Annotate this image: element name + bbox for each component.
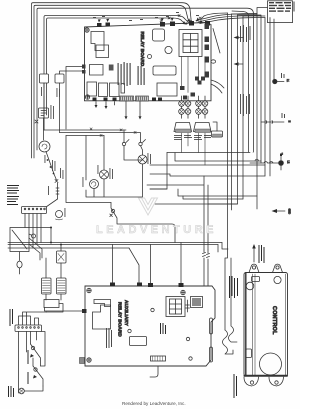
control ear hole top-right	[276, 266, 279, 269]
control bottom-left text	[234, 374, 238, 398]
aux right bars	[210, 318, 213, 362]
long horizontals mid-bottom	[8, 243, 222, 249]
control arrow text	[259, 245, 265, 263]
control big circle	[260, 353, 282, 375]
oven lamp circle	[100, 170, 109, 179]
aux relay big	[93, 305, 111, 329]
lamp2 circle	[138, 155, 147, 164]
drop to aux verticals with break	[203, 250, 210, 286]
wire lamp left vert	[66, 136, 111, 203]
bl strip feeds	[19, 312, 47, 325]
control ear hole top-left	[252, 266, 255, 269]
small box bottom right of board	[157, 83, 177, 96]
wire drops below relay board	[96, 102, 115, 108]
wavy wires to control	[223, 330, 234, 354]
wire mid horizontals	[44, 130, 140, 136]
bl junction box	[44, 300, 63, 313]
aux relay board outline	[85, 286, 215, 366]
bl switch2	[33, 358, 43, 386]
wire right bus v4	[269, 18, 271, 177]
right edge contacts	[205, 24, 210, 78]
svg-text:LEADVENTURE: LEADVENTURE	[96, 224, 217, 236]
top edge pads	[97, 21, 210, 27]
wire top fan 2	[198, 16, 261, 23]
spark module	[212, 131, 223, 137]
dark comp x	[109, 65, 114, 71]
wire frame feed5	[47, 18, 187, 115]
wire switch tops	[60, 67, 83, 130]
aux pin header	[151, 356, 166, 361]
aux top pads	[110, 283, 184, 288]
control rects	[252, 277, 260, 282]
label specks above board	[93, 12, 199, 21]
aux ic	[130, 337, 147, 346]
wire fuse to strip	[46, 199, 58, 207]
control knob circle left	[246, 282, 254, 290]
wire latch down	[43, 118, 45, 140]
bus small marks	[281, 73, 285, 155]
conv motor circle	[90, 180, 99, 189]
component circle	[165, 46, 172, 53]
junction dots	[186, 20, 193, 24]
aux hole H2	[186, 337, 189, 340]
control ear hole bottom-right	[275, 381, 278, 384]
aux dark comp	[191, 297, 203, 308]
aux bottom exit wire	[150, 366, 158, 377]
svg-text:RELAY BOARD: RELAY BOARD	[118, 302, 123, 337]
wire right bus v2	[260, 16, 262, 164]
igniter stack A	[174, 96, 192, 133]
wire right bus v3	[264, 18, 266, 177]
wire spark module	[213, 122, 217, 131]
bl left text	[10, 309, 14, 326]
comp x box	[57, 251, 67, 263]
solenoid B	[57, 278, 67, 294]
x mark under latch	[35, 120, 38, 123]
igniter stack B	[194, 96, 212, 133]
wire left-mid bus v2	[231, 14, 233, 210]
bl lamp	[19, 386, 43, 394]
diagonal drop	[129, 248, 139, 286]
control inner lines	[253, 274, 286, 375]
buzzer circle	[56, 211, 63, 220]
rounded component	[153, 29, 165, 41]
L1 terminal	[273, 79, 284, 83]
pad arrows	[98, 18, 174, 23]
wire oval	[19, 252, 21, 274]
bl terminal strip	[15, 325, 42, 332]
right edge wires	[211, 29, 224, 94]
wire left-mid bus v1	[227, 13, 229, 249]
staircase nest wires	[167, 153, 261, 162]
wire frame second	[34, 5, 188, 158]
bottom edge pads	[93, 98, 163, 102]
left margin text stack	[7, 185, 19, 205]
board text block2	[138, 66, 145, 85]
control up arrow	[252, 244, 256, 262]
latch box	[39, 108, 49, 118]
connector strip bottom hatched2	[136, 96, 149, 101]
relay row r2	[99, 83, 108, 97]
aux bottom wire out	[45, 308, 85, 312]
wire top fan 3	[200, 18, 265, 24]
wire motor diagonal	[46, 152, 57, 181]
bus arrows	[234, 36, 239, 66]
wire to fuse	[56, 183, 59, 199]
door switch box	[40, 74, 49, 130]
svg-text:Rendered by LeadVenture, Inc.: Rendered by LeadVenture, Inc.	[122, 401, 186, 406]
arrowhead bake	[125, 116, 142, 119]
svg-text:CONTROL: CONTROL	[271, 306, 277, 335]
bus label text top	[240, 25, 251, 42]
wire corner to control	[218, 243, 228, 253]
lamp labels	[45, 153, 151, 217]
svg-text:GND: GND	[288, 209, 292, 215]
board left edge pads	[82, 65, 86, 74]
light switch box	[55, 74, 64, 133]
svg-text:RELAY BOARD: RELAY BOARD	[140, 32, 145, 67]
control knob circle right	[274, 276, 281, 283]
aux mounting hole 3	[87, 358, 91, 362]
legend text lines	[269, 2, 295, 12]
igniter labels	[174, 135, 211, 140]
bl small texts	[8, 350, 29, 397]
aux internal wires	[186, 300, 190, 312]
bottom area pads	[180, 81, 202, 100]
aux left edge connector	[80, 358, 85, 364]
aux feed verticals	[113, 243, 182, 284]
clock display module	[179, 30, 202, 57]
wire right bus v5	[273, 19, 275, 82]
misc labels left	[41, 87, 63, 195]
rotated text block right of igniters	[240, 94, 250, 116]
motor M1 circle	[39, 141, 50, 152]
aux text block	[160, 323, 166, 334]
wire frame third	[37, 8, 254, 152]
strip wires down	[25, 214, 41, 249]
aux grid module	[166, 297, 185, 317]
lamp feed switches	[122, 140, 145, 146]
wire right feed	[232, 11, 249, 152]
solenoid A	[42, 278, 52, 294]
wire frame outer top-left	[32, 3, 192, 158]
switch dots diagonal	[47, 159, 55, 174]
wire junction drop	[190, 19, 192, 24]
mounting hole top-left	[85, 28, 89, 32]
relay K1	[91, 32, 104, 51]
aux relay small	[94, 300, 111, 307]
mounting hole bottom-left	[85, 95, 89, 99]
GND arrow	[272, 209, 286, 213]
wire hops staircase	[253, 153, 259, 162]
wires lamps	[86, 130, 143, 197]
bl switch1	[30, 344, 41, 366]
junction arrows	[182, 18, 202, 26]
wire left-mid bus v4	[242, 16, 244, 199]
wire left-mid bus v3	[237, 15, 239, 204]
aux hole H4	[128, 329, 131, 332]
control ear hole bottom-left	[250, 381, 253, 384]
connector strip bottom hatched1	[120, 96, 134, 101]
small oval	[17, 261, 22, 268]
control ears top	[249, 264, 283, 272]
wire top bus feeds	[201, 13, 265, 19]
wires bl cluster	[29, 228, 61, 301]
relay K3	[90, 65, 104, 76]
control bottom edge	[245, 375, 288, 377]
door sw mid	[110, 203, 175, 243]
bus arrow stems	[239, 38, 244, 65]
crossing x marks mid	[90, 128, 136, 137]
wire bake drop	[126, 102, 140, 117]
igniter drop wires	[182, 133, 206, 165]
aux left edge pad top	[82, 309, 87, 313]
aux hole H3	[189, 357, 192, 360]
legend box top-right	[268, 1, 293, 23]
aux text block 2	[106, 328, 112, 348]
terminal strip P1	[22, 207, 47, 214]
hole circle	[148, 55, 152, 59]
display feed wires	[182, 57, 206, 93]
wire top fan from right to junction	[196, 14, 257, 21]
wire timer diag out	[29, 238, 42, 260]
timer box left	[10, 228, 36, 252]
relay board outline	[85, 23, 212, 101]
control box	[244, 273, 288, 377]
aux mounting hole 1	[87, 288, 91, 292]
wire right bus v1	[256, 14, 258, 210]
N line	[261, 121, 284, 124]
board text block1	[118, 62, 131, 86]
crossing x marks	[160, 15, 201, 22]
watermark logo V	[139, 198, 158, 215]
relay row r1	[87, 82, 97, 96]
svg-text:N: N	[288, 121, 292, 123]
svg-text:AUXILIARY: AUXILIARY	[124, 300, 129, 326]
control small rect	[246, 349, 252, 358]
aux mounting hole 2	[181, 290, 185, 294]
x mark diag	[55, 180, 58, 183]
bl wires down	[19, 332, 37, 394]
relay row r4	[121, 84, 125, 94]
relay row r3	[110, 83, 120, 97]
wire control feed down	[225, 249, 228, 330]
relay K2	[96, 45, 109, 58]
under display pads	[195, 77, 205, 81]
ic chip	[153, 66, 176, 75]
aux hole H1	[151, 308, 154, 311]
control ears bottom	[244, 377, 284, 386]
wire frame fourth	[44, 16, 189, 131]
bl vert wires2	[41, 332, 46, 367]
arrowheads below board	[95, 105, 108, 109]
L2 terminal	[250, 154, 283, 171]
control left text	[229, 276, 238, 298]
